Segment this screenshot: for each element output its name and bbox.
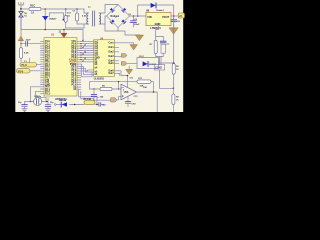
op-amp bottom stub capacitor C10 — [125, 96, 138, 106]
port arrow 1 — [122, 54, 128, 58]
wire — [41, 8, 84, 10]
svg-text:ULN2003: ULN2003 — [94, 78, 105, 81]
svg-text:a4: a4 — [84, 50, 86, 53]
wire regulator output — [171, 15, 178, 17]
wire — [160, 70, 174, 88]
IC U1 pin labels right column — [69, 41, 77, 91]
svg-text:VOUT: VOUT — [162, 15, 170, 19]
fuse F1 vertical — [64, 9, 72, 28]
node junction — [76, 8, 78, 10]
regulator ground drop wire — [156, 26, 159, 37]
svg-text:Out6: Out6 — [108, 70, 114, 73]
svg-text:Out1: Out1 — [108, 46, 114, 49]
node junction — [173, 15, 175, 17]
IC U3 right pin labels — [108, 43, 114, 76]
capacitor C5 electrolytic — [129, 16, 140, 27]
wire bridge bottom to ground — [105, 24, 140, 35]
wire bottoms of R7/C7 — [156, 53, 164, 64]
node junction — [93, 88, 94, 89]
node junction — [44, 8, 46, 10]
capacitor C3 — [18, 102, 31, 109]
diode bottom-left — [110, 19, 115, 24]
transformer T1 — [82, 5, 118, 27]
ground symbol under C3 — [22, 109, 27, 112]
node junction — [63, 19, 65, 21]
wire to plus input — [118, 96, 122, 100]
terminal circle — [54, 104, 56, 106]
node junction — [65, 8, 67, 10]
svg-text:P2.3: P2.3 — [45, 93, 50, 95]
wire U3 pin1 to ground — [119, 43, 134, 45]
svg-text:1A: 1A — [67, 14, 70, 17]
inter-IC wires U1 to U3 — [81, 41, 94, 76]
svg-text:10uF: 10uF — [26, 40, 32, 42]
svg-text:12MHz: 12MHz — [34, 96, 42, 98]
node junction — [133, 15, 135, 17]
svg-text:JDQ1: JDQ1 — [139, 56, 145, 58]
svg-text:1N4007: 1N4007 — [49, 18, 57, 21]
node junction — [96, 104, 98, 106]
capacitor C8 series — [99, 103, 106, 107]
svg-text:VIN: VIN — [147, 15, 151, 19]
diode D3 in relay — [143, 61, 157, 66]
svg-text:a5: a5 — [82, 54, 84, 56]
svg-text:Out5: Out5 — [108, 62, 114, 65]
node junction — [20, 43, 21, 44]
feedback wire — [119, 82, 154, 92]
power ground arrow — [136, 35, 144, 41]
wire relay to right rail — [159, 57, 174, 65]
ground arrow red above U1 — [61, 33, 67, 37]
wire loop over D1 — [49, 13, 63, 20]
IC U3 right pins — [114, 43, 121, 74]
varistor RV1 — [19, 9, 28, 30]
capacitor C7 electrolytic vertical — [160, 41, 170, 53]
wire ground stem — [128, 66, 130, 69]
op-amp U5 — [121, 84, 137, 100]
VCC power arrow — [18, 36, 23, 41]
wire bottom row — [56, 104, 84, 106]
svg-text:P1-8: P1-8 — [22, 64, 28, 67]
resistor R9 vertical — [172, 64, 179, 75]
node junction — [30, 101, 32, 103]
IC U1 pin labels left column — [45, 41, 50, 95]
capacitor C6 — [171, 16, 181, 28]
relay K1 box — [128, 56, 159, 69]
svg-text:CON2: CON2 — [155, 67, 162, 70]
svg-text:GND: GND — [155, 22, 161, 26]
diode D2 bypass over regulator — [138, 3, 174, 16]
svg-text:P2-6: P2-6 — [18, 70, 24, 73]
capacitor CX vertical pill — [73, 9, 79, 24]
port arrow 2 — [122, 62, 128, 66]
wire — [21, 8, 29, 10]
svg-text:4.5V: 4.5V — [82, 15, 87, 18]
IC U1 right pins — [77, 41, 81, 89]
svg-text:10K: 10K — [143, 87, 147, 89]
node junction J1 — [20, 8, 22, 10]
svg-text:a3: a3 — [82, 47, 84, 49]
capacitor C2 reset — [21, 40, 41, 47]
node junction — [118, 81, 119, 82]
crystal Y1 — [34, 96, 42, 106]
wire stub above P1 — [29, 58, 31, 62]
wire op-amp input loop — [90, 82, 138, 89]
ground arrow small — [126, 69, 133, 74]
resistor R5 horizontal — [100, 86, 112, 91]
svg-text:8.2K: 8.2K — [24, 52, 29, 54]
svg-text:a7: a7 — [82, 61, 84, 63]
svg-text:a6: a6 — [84, 58, 86, 60]
svg-text:1N4148: 1N4148 — [59, 99, 67, 102]
power ground arrow — [169, 28, 178, 34]
port +5V — [178, 13, 184, 18]
svg-text:1A: 1A — [31, 12, 34, 15]
node junction — [44, 29, 46, 31]
port arrow 3 — [111, 98, 117, 102]
schematic sheet background — [15, 0, 183, 112]
diode bottom-right — [121, 19, 126, 24]
svg-text:R1C: R1C — [30, 3, 35, 7]
connector JP1 box — [155, 65, 165, 71]
long vertical wire right — [173, 16, 175, 88]
svg-text:Out3: Out3 — [108, 55, 114, 58]
diode D1 1N4007 — [43, 9, 58, 30]
wire bridge output — [130, 15, 147, 17]
svg-text:Com: Com — [108, 43, 113, 45]
svg-text:Bridge1: Bridge1 — [111, 16, 120, 18]
node junction — [173, 88, 175, 90]
net label texts between ICs — [82, 40, 86, 63]
svg-text:R3 10K: R3 10K — [84, 99, 92, 101]
wire VCC rail — [21, 30, 83, 42]
bridge rectifier Bridge1 — [107, 5, 130, 28]
resistor R4 yellow pill — [84, 99, 99, 104]
node junction — [118, 88, 119, 89]
node junction dots on inter-IC wires — [80, 43, 81, 60]
IC U3 left pin labels — [95, 41, 100, 76]
IC U1 AT89C51 body — [44, 32, 77, 101]
port P2 yellow — [17, 69, 41, 74]
crystal wires — [31, 87, 49, 105]
svg-text:a1: a1 — [82, 40, 84, 42]
resistor R8 vertical — [172, 88, 180, 112]
IC U1 left pins — [41, 41, 45, 93]
power flag AC input — [18, 2, 24, 9]
resistor R1 (fuse) — [29, 3, 41, 14]
resistor R2 vertical — [20, 41, 30, 62]
resistor R7 vertical — [150, 37, 164, 54]
svg-text:a2: a2 — [84, 45, 86, 47]
svg-text:U5A: U5A — [124, 91, 129, 94]
ground arrow — [130, 45, 138, 50]
capacitor C9 — [91, 89, 111, 100]
diode top-right — [122, 8, 127, 13]
port P1 yellow — [20, 61, 41, 67]
node junction — [127, 75, 129, 77]
svg-text:IN4007: IN4007 — [149, 63, 157, 66]
wire op-amp output — [137, 92, 158, 112]
diode top-left — [110, 8, 115, 13]
svg-text:100uF: 100uF — [134, 24, 141, 26]
svg-text:Diode1: Diode1 — [157, 10, 165, 12]
diode D4 horizontal — [59, 99, 68, 107]
svg-text:Out7: Out7 — [108, 72, 114, 75]
ground symbol under C4 — [45, 109, 50, 112]
node junction — [153, 91, 155, 93]
node junction — [63, 29, 65, 31]
wire U3 bottom pins to op-amp V+ — [119, 71, 128, 87]
capacitor C4 — [45, 102, 54, 109]
wire stair from U1 to bottom row — [79, 89, 98, 104]
IC U3 ULN2003 body — [94, 37, 115, 80]
voltage regulator U8 L7805 — [146, 10, 171, 31]
svg-text:Out2: Out2 — [108, 51, 114, 54]
node junction — [46, 101, 48, 103]
wire — [66, 24, 84, 28]
node junction — [173, 62, 175, 64]
node junction — [74, 104, 76, 106]
resistor R6 feedback — [137, 78, 151, 88]
